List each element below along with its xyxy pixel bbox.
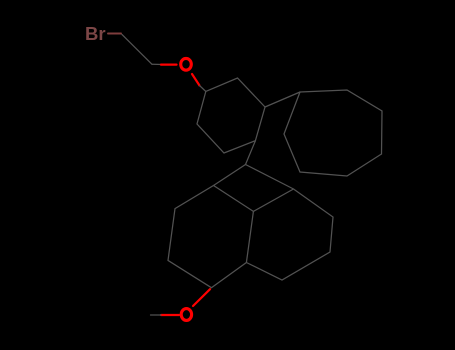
benzene ring A bbox=[197, 78, 265, 153]
wire Br-C1 bond (brown half) bbox=[108, 33, 121, 35]
wire O2-CH3 bond red half bbox=[161, 314, 179, 316]
wire biaryl bond ringA-ringC bbox=[265, 92, 300, 107]
wire C4-ringB bond bbox=[214, 165, 246, 186]
wire C2-O1 bond red half bbox=[161, 63, 177, 65]
wire C4=C(D3) bond bbox=[246, 165, 294, 190]
benzene ring B bbox=[168, 186, 253, 288]
ring D (lower right, fused) bbox=[246, 189, 333, 280]
wire O1-ringA bond gray tip bbox=[200, 86, 206, 92]
wire O1-ringA bond red half bbox=[192, 74, 200, 86]
wire ringB-O2 bond red bbox=[193, 289, 210, 306]
wire C1-C2 bond bbox=[122, 35, 152, 65]
svg-text:Br: Br bbox=[85, 23, 106, 44]
wire C2-O1 bond gray half bbox=[152, 63, 163, 65]
oxygen O2 label bbox=[181, 309, 191, 321]
oxygen O1 label bbox=[181, 58, 192, 70]
wire ringA-C4 bond bbox=[246, 141, 256, 165]
cycloheptane ring C bbox=[284, 90, 382, 176]
wire O2-CH3 bond gray half bbox=[151, 314, 162, 316]
